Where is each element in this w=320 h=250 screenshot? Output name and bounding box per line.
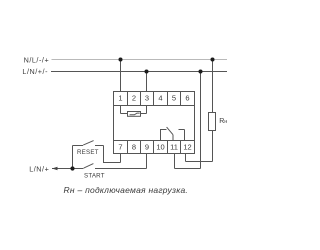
wire from bus2 to terminal 3	[146, 72, 148, 92]
relay contact NC side from terminal 12	[179, 130, 185, 141]
svg-text:Rн: Rн	[219, 118, 227, 125]
resistor Rн	[209, 113, 216, 131]
svg-text:6: 6	[185, 93, 189, 102]
wire bus N/L top line	[52, 59, 228, 61]
svg-text:10: 10	[156, 142, 164, 151]
svg-text:N/L/-/+: N/L/-/+	[24, 55, 50, 64]
svg-text:4: 4	[158, 93, 162, 102]
node dot bus2/terminal3	[145, 70, 149, 74]
svg-text:5: 5	[172, 93, 176, 102]
START switch blade	[84, 164, 94, 169]
wire from bus1 to terminal 1	[120, 60, 122, 92]
terminal dividers bottom row	[128, 141, 181, 154]
node dot bus1/terminal1	[119, 58, 123, 62]
svg-text:7: 7	[118, 142, 122, 151]
wire terminal 3 to internal component	[141, 106, 147, 114]
terminal dividers top row	[128, 92, 181, 106]
arrow on L/N/+ line	[52, 167, 58, 171]
wire junction up to RESET branch	[72, 146, 74, 169]
svg-text:8: 8	[132, 142, 136, 151]
svg-text:1: 1	[118, 93, 122, 102]
wire terminal 9 to START line	[146, 154, 148, 169]
svg-text:L/N/+/-: L/N/+/-	[22, 67, 48, 76]
svg-text:Rн – подключаемая нагрузка.: Rн – подключаемая нагрузка.	[64, 185, 189, 195]
bottom supply line L/N/+	[52, 168, 147, 170]
svg-text:12: 12	[183, 142, 191, 151]
svg-text:9: 9	[145, 142, 149, 151]
svg-text:11: 11	[170, 142, 178, 151]
RESET switch left segment	[73, 145, 84, 147]
svg-text:RESET: RESET	[77, 149, 99, 156]
svg-text:3: 3	[145, 93, 149, 102]
node dot bus2/right drop	[199, 70, 203, 74]
RESET right segment to terminal 7	[95, 146, 121, 163]
wire from right drop to terminal 11	[175, 154, 201, 169]
svg-text:START: START	[84, 172, 105, 179]
node dot START/RESET junction	[70, 166, 74, 170]
wire from bus2 down right side	[200, 72, 202, 169]
wire bus L/N second line	[51, 71, 227, 73]
relay contact blade to terminal 11	[167, 127, 173, 140]
device outline	[114, 92, 195, 154]
svg-text:2: 2	[132, 93, 136, 102]
relay contact fixed side from terminal 10	[161, 130, 167, 141]
wire from Rн bottom to terminal 12	[186, 131, 213, 162]
wire terminal 1 to internal component	[121, 106, 128, 114]
varistor box	[128, 112, 141, 117]
node dot bus1/Rн	[211, 58, 215, 62]
RESET switch blade	[83, 141, 93, 146]
wire from bus1 down to resistor Rн top	[212, 60, 214, 113]
terminal strip bottom row top edge	[114, 140, 195, 142]
terminal strip top row bottom edge	[114, 105, 195, 107]
svg-text:L/N/+: L/N/+	[29, 165, 49, 174]
varistor diagonal	[130, 113, 140, 115]
